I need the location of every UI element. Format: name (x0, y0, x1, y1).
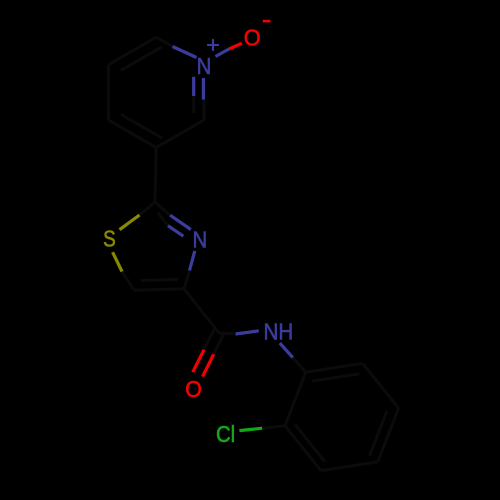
wire: pyridine C4-C5 bond (dark) (107, 65, 110, 120)
wire: C2-Cl bond carbon half (dark) (262, 426, 285, 428)
bond phenyl C2 - Cl, chlorine half (green) (239, 428, 262, 430)
wire: carbonyl C - amide N carbon half (dark) (219, 333, 236, 334)
wire: amide N - phenyl C1 carbon half (dark) (293, 358, 306, 373)
bond thiazole C2=N3 double, nitrogen halves (blue) (170, 215, 191, 229)
bond thiazole S1-C2, sulfur half (yellow) (120, 215, 140, 230)
svg-text:Cl: Cl (216, 421, 235, 447)
wire: biaryl link pyridine C3 - thiazole C2 (dark) (155, 148, 156, 202)
bond amide N - phenyl C1, nitrogen half (blue) (280, 343, 293, 358)
wire: benzene C5-C6 bond (dark) (363, 363, 399, 408)
bond N1-O oxide, oxygen half (red) (229, 43, 242, 49)
wire: thiazole C2=N3 double bond carbon halves (dark) (155, 202, 170, 215)
wire: thiazole N3-C4 carbon half (dark) (184, 271, 190, 289)
svg-text:N: N (197, 53, 212, 79)
wire: pyridine C5=C6 double bond (dark) (108, 37, 156, 65)
bond C=O carbonyl double, oxygen halves (red) (203, 354, 214, 377)
charge: minus sign on oxide O (263, 20, 271, 23)
wire: C=O double bond carbon halves (dark) (214, 332, 225, 355)
wire: pyridine C2-C3 bond (dark) (156, 120, 204, 148)
wire: pyridine C3=C4 double bond (dark) (108, 120, 156, 148)
bond thiazole N3-C4, nitrogen half (blue) (190, 251, 195, 271)
wire: thiazole C4 - carbonyl C bond (dark) (184, 289, 219, 333)
wire: thiazole C5=C4 double bond (dark) (134, 289, 184, 291)
svg-text:N: N (193, 226, 208, 252)
svg-text:NH: NH (264, 319, 294, 345)
bond carbonyl C - amide N, nitrogen half (blue) (236, 331, 259, 334)
wire: benzene C3-C4 bond (dark) (321, 462, 378, 471)
wire: benzene C1-C2 bond (dark) (285, 372, 306, 426)
charge: plus sign on pyridinium N1 (207, 44, 219, 46)
wire: pyridine C6-N1 carbon half (dark) (156, 37, 172, 46)
wire: benzene C4=C5 double bond (dark) (378, 408, 399, 462)
svg-text:O: O (185, 376, 202, 402)
wire: thiazole S1-C5 carbon half (dark) (122, 272, 134, 291)
wire: benzene C2=C3 double bond (dark) (285, 426, 321, 471)
bond N1-O oxide, nitrogen half (blue) (216, 49, 230, 57)
wire: thiazole C2-S1 carbon half (dark) (140, 202, 156, 215)
wire: pyridine N1=C2 double bond carbon halves (dark) (203, 100, 206, 120)
bond pyridine C6-N1, nitrogen half (blue) (173, 47, 197, 58)
svg-text:S: S (103, 226, 116, 252)
wire: benzene C6=C1 double bond (dark) (306, 363, 363, 372)
svg-text:O: O (244, 25, 261, 51)
bond thiazole S1-C5, sulfur half (yellow) (113, 252, 122, 271)
bond pyridine N1=C2 double, nitrogen halves (blue) (202, 78, 205, 100)
